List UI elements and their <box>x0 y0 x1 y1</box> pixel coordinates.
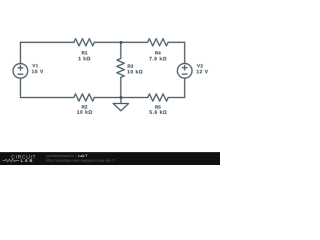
wire R5 to node B <box>121 97 148 99</box>
label V2 value <box>197 70 208 73</box>
resistor R4 <box>148 39 169 46</box>
wire top-left horizontal <box>20 41 73 43</box>
resistor R2 <box>74 94 95 101</box>
resistor R3 <box>117 59 124 78</box>
wire R2 to bottom-left corner up to V1 <box>20 78 73 97</box>
voltage source V2 plus-minus halo <box>182 65 187 74</box>
wire R1 to node A <box>94 41 121 43</box>
wire node A down to R3 <box>120 42 122 58</box>
wire node B to R2 halo <box>94 97 121 99</box>
footer bar <box>0 152 220 165</box>
wire R4 to top-right corner down to V2 <box>168 42 185 63</box>
node B junction dot <box>120 96 123 99</box>
wire R3 to node B <box>120 78 122 98</box>
node A junction dot <box>120 41 123 44</box>
footer credit line2 url <box>47 159 115 162</box>
wire R4 to top-right corner down to V2 halo <box>168 42 185 63</box>
footer credit line1 bold <box>79 154 88 156</box>
label V1 value <box>32 70 43 73</box>
wire node A down to R3 halo <box>120 42 122 58</box>
voltage source V2 plus-minus <box>182 65 187 74</box>
voltage source V1 circle <box>13 64 28 79</box>
wire node A to R4 halo <box>121 41 148 43</box>
label V1 name <box>32 64 38 67</box>
wire R5 to node B halo <box>121 97 148 99</box>
ground halo <box>113 98 128 111</box>
voltage source V1 plus-minus halo <box>18 66 23 75</box>
footer credit line1 gray <box>46 155 76 158</box>
label R5 name <box>155 105 160 108</box>
resistor R1 <box>74 39 95 46</box>
resistor R1 halo <box>74 39 95 46</box>
voltage source V1 circle halo <box>13 64 28 79</box>
wire V2 bottom to bottom-right corner halo <box>168 78 185 97</box>
voltage source V1 plus-minus <box>18 66 23 75</box>
resistor R2 halo <box>74 94 95 101</box>
label R2 name <box>82 105 87 108</box>
resistor R4 halo <box>148 39 169 46</box>
label R2 value <box>77 110 92 114</box>
label R1 value <box>79 57 91 61</box>
wire node A to R4 <box>121 41 148 43</box>
wire R1 to node A halo <box>94 41 121 43</box>
wire V1 top to top-left corner halo <box>19 42 21 63</box>
CircuitLab logo resistor squiggle <box>3 159 19 162</box>
wire V2 bottom to bottom-right corner <box>168 78 185 97</box>
resistor R3 halo <box>117 59 124 78</box>
resistor R5 <box>148 94 169 101</box>
label R4 name <box>155 51 161 54</box>
wire node B to R2 <box>94 97 121 99</box>
label R3 name <box>128 64 133 67</box>
voltage source V2 circle <box>177 63 192 78</box>
label R3 value <box>128 70 143 74</box>
wire halo layer (soft antialias look) <box>13 39 192 111</box>
label V2 name <box>197 64 203 67</box>
logo LAB text <box>21 159 32 162</box>
wire top-left horizontal halo <box>20 41 73 43</box>
wire R2 to bottom-left corner up to V1 halo <box>20 78 73 97</box>
voltage source V2 circle halo <box>177 63 192 78</box>
label R4 value <box>149 57 166 61</box>
label R1 name <box>82 51 87 54</box>
label R5 value <box>149 110 166 114</box>
ground <box>113 98 128 111</box>
resistor R5 halo <box>148 94 169 101</box>
wire V1 top to top-left corner <box>19 42 21 63</box>
wire R3 to node B halo <box>120 78 122 98</box>
logo CIRCUIT text <box>11 155 35 159</box>
